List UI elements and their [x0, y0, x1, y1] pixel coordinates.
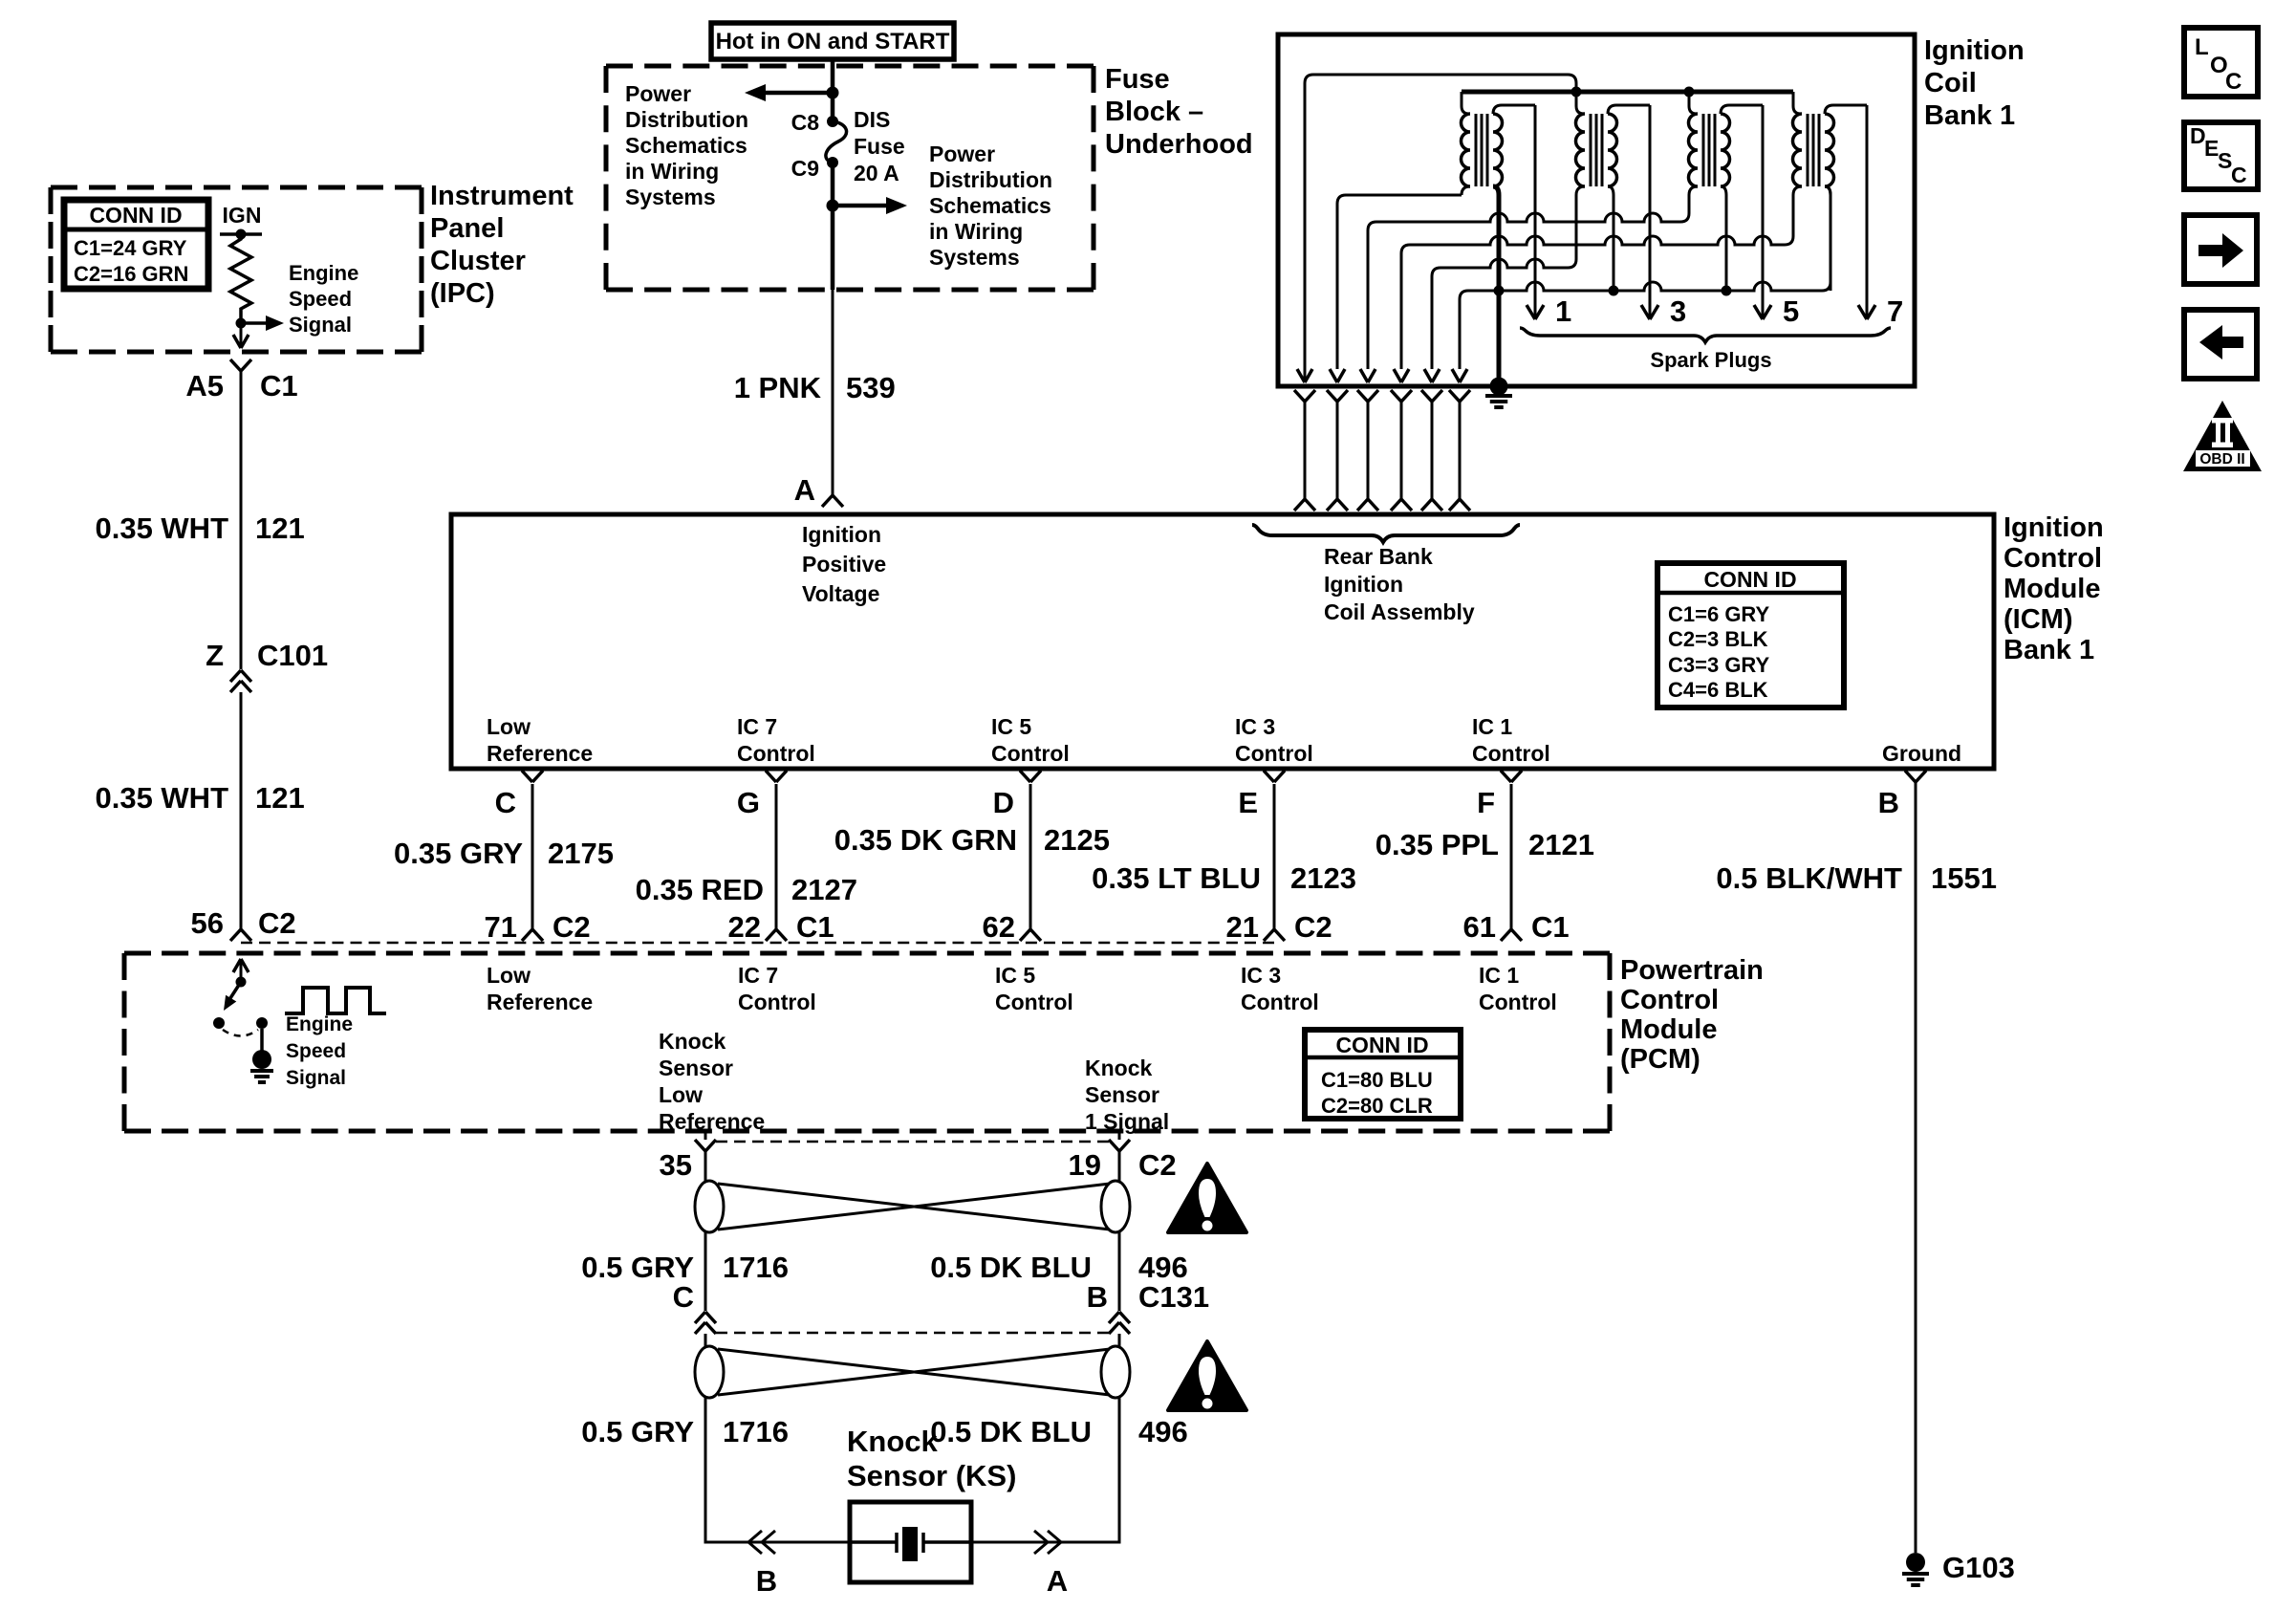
- svg-text:CONN ID: CONN ID: [89, 203, 182, 228]
- PCM pin 19 C2 connector: [1069, 1131, 1177, 1182]
- wire label 0.5 DK BLU 496 upper: [930, 1251, 1188, 1284]
- svg-text:C: C: [495, 786, 516, 819]
- svg-text:(ICM): (ICM): [2004, 604, 2072, 635]
- svg-text:Ignition: Ignition: [1924, 35, 2025, 66]
- svg-text:A5: A5: [185, 369, 224, 403]
- svg-text:Powertrain: Powertrain: [1620, 955, 1764, 986]
- svg-text:71: 71: [485, 910, 517, 944]
- icon forward arrow box: [2184, 215, 2257, 284]
- label Rear Bank Ignition Coil Assembly: [1324, 544, 1475, 624]
- svg-text:Control: Control: [1235, 741, 1313, 766]
- ICM pin label IC 1 Control: [1472, 714, 1550, 766]
- svg-text:5: 5: [1783, 294, 1799, 328]
- rear bank brace: [1252, 525, 1520, 542]
- svg-text:Speed: Speed: [289, 287, 352, 311]
- svg-text:CONN ID: CONN ID: [1703, 567, 1796, 592]
- svg-text:Voltage: Voltage: [802, 581, 879, 606]
- label Engine Speed Signal (PCM): [286, 1013, 353, 1089]
- junction dot secondary T1 ground: [1494, 286, 1505, 296]
- svg-text:1 Signal: 1 Signal: [1085, 1109, 1169, 1134]
- twisted pair upper: [695, 1181, 1130, 1232]
- svg-text:0.35 GRY: 0.35 GRY: [394, 837, 523, 870]
- junction dot rail T2: [1571, 87, 1582, 98]
- svg-text:Module: Module: [1620, 1014, 1718, 1045]
- svg-text:Reference: Reference: [487, 741, 593, 766]
- svg-text:IC 1: IC 1: [1479, 963, 1519, 988]
- wire: knock low reference upper: [704, 1151, 707, 1183]
- wire: L5 feed to T2 primary: [1424, 259, 1568, 382]
- svg-text:Low: Low: [487, 963, 531, 988]
- junction dot fuse output: [827, 200, 839, 212]
- svg-text:0.35 DK GRN: 0.35 DK GRN: [834, 823, 1017, 857]
- svg-text:IC 3: IC 3: [1241, 963, 1281, 988]
- svg-text:Systems: Systems: [929, 245, 1020, 270]
- arrow to power distribution left: [745, 84, 833, 101]
- svg-text:Cluster: Cluster: [430, 246, 526, 276]
- PCM pin 35 connector: [660, 1131, 716, 1182]
- svg-text:Block –: Block –: [1105, 97, 1203, 127]
- ground dot coil box: [1490, 378, 1508, 396]
- svg-text:0.5 GRY: 0.5 GRY: [581, 1251, 694, 1284]
- wire: IPC output with arrow: [233, 323, 249, 348]
- label IGN: [223, 203, 262, 228]
- svg-text:2175: 2175: [548, 837, 614, 870]
- wire: L3 feed to T3 primary: [1360, 213, 1680, 382]
- svg-text:IC 7: IC 7: [738, 963, 778, 988]
- svg-text:Control: Control: [738, 990, 816, 1014]
- wire: knock sensor left lead: [705, 1398, 850, 1542]
- svg-text:20 A: 20 A: [854, 161, 899, 185]
- ignition coil bank 1 box: [1278, 34, 1915, 386]
- svg-text:Knock: Knock: [847, 1425, 939, 1458]
- svg-text:35: 35: [660, 1148, 692, 1182]
- PCM pin label IC 7 Control: [738, 963, 816, 1014]
- wire label 0.5 DK BLU 496 lower: [930, 1415, 1188, 1448]
- label Knock Sensor Low Reference: [659, 1029, 765, 1134]
- svg-text:2125: 2125: [1044, 823, 1110, 857]
- svg-text:2123: 2123: [1290, 861, 1356, 895]
- IPC pin A5 connector: [230, 359, 251, 669]
- svg-text:Speed: Speed: [286, 1040, 346, 1062]
- ICM pin E connector and wire: [1238, 771, 1285, 941]
- svg-text:0.5 GRY: 0.5 GRY: [581, 1415, 694, 1448]
- powertrain control module dashed box: [124, 953, 1610, 1131]
- junction dot fuse feed: [827, 87, 839, 99]
- icon back arrow box: [2184, 310, 2257, 379]
- svg-text:Distribution: Distribution: [625, 107, 748, 132]
- wire label 0.5 BLK/WHT 1551: [1716, 861, 1997, 895]
- svg-text:G103: G103: [1942, 1551, 2015, 1584]
- svg-text:62: 62: [983, 910, 1015, 944]
- wire label 1 PNK 539: [734, 371, 896, 404]
- svg-text:B: B: [1878, 786, 1899, 819]
- svg-text:C9: C9: [791, 156, 819, 181]
- ignition control module box: [451, 514, 1994, 769]
- svg-text:C8: C8: [791, 110, 820, 135]
- svg-text:Bank 1: Bank 1: [1924, 100, 2015, 131]
- svg-text:1: 1: [1555, 294, 1571, 328]
- svg-text:Ignition: Ignition: [802, 522, 881, 547]
- wire: spark plug 3 line: [1641, 105, 1686, 328]
- junction dot secondary T3: [1722, 286, 1732, 296]
- svg-text:C101: C101: [257, 639, 328, 672]
- PCM pin label IC 5 Control: [995, 963, 1073, 1014]
- svg-text:Fuse: Fuse: [854, 134, 905, 159]
- svg-text:C2: C2: [1294, 910, 1332, 944]
- svg-text:IC 5: IC 5: [995, 963, 1035, 988]
- terminal dot C9: [827, 157, 838, 168]
- switch motion dashed arc: [223, 1030, 258, 1036]
- ground dot engine speed signal: [252, 1050, 271, 1069]
- wire: fuse output vertical: [831, 163, 835, 495]
- wire: B+ rail: [1462, 90, 1793, 95]
- resistor engine speed signal: [230, 234, 251, 323]
- svg-text:L: L: [2195, 34, 2209, 60]
- svg-text:121: 121: [255, 512, 305, 545]
- svg-text:Ground: Ground: [1882, 741, 1961, 766]
- wire: knock signal below C131: [1118, 1334, 1121, 1348]
- svg-text:C: C: [673, 1280, 694, 1314]
- svg-text:56: 56: [191, 906, 224, 940]
- PCM pin label IC 1 Control: [1479, 963, 1557, 1014]
- connector dashed line at PCM top: [241, 942, 1274, 945]
- svg-text:(PCM): (PCM): [1620, 1044, 1700, 1075]
- svg-text:C2=3 BLK: C2=3 BLK: [1668, 627, 1768, 651]
- junction dot secondary T2: [1609, 286, 1619, 296]
- label Instrument Panel Cluster (IPC): [430, 181, 574, 309]
- svg-text:Instrument: Instrument: [430, 181, 574, 211]
- wire: knock low ref below C131: [704, 1334, 707, 1348]
- ignition coil transformer T2: [1568, 92, 1650, 291]
- svg-text:C2: C2: [258, 906, 296, 940]
- connector C131 left pin C: [673, 1280, 716, 1334]
- label A5 C1: [185, 369, 297, 403]
- ignition coil transformer T3: [1680, 92, 1763, 291]
- svg-text:Underhood: Underhood: [1105, 129, 1253, 160]
- svg-text:Control: Control: [1620, 985, 1719, 1015]
- svg-text:21: 21: [1226, 910, 1259, 944]
- arrow into PCM pin 56: [233, 959, 249, 982]
- svg-text:C2: C2: [552, 910, 591, 944]
- coil connector pin at x=1527: [1449, 390, 1470, 511]
- label Ignition Control Module (ICM) Bank 1: [2004, 512, 2104, 665]
- icon OBD II triangle: [2183, 401, 2262, 471]
- switch arm engine speed signal: [224, 982, 241, 1011]
- coil connector pin at x=1399: [1327, 390, 1348, 511]
- svg-text:Bank 1: Bank 1: [2004, 635, 2094, 665]
- wire label 0.35 LT BLU 2123: [1092, 861, 1356, 895]
- svg-text:C: C: [2231, 163, 2247, 187]
- svg-text:B: B: [756, 1564, 777, 1598]
- svg-text:19: 19: [1069, 1148, 1101, 1182]
- svg-text:Signal: Signal: [289, 313, 352, 337]
- svg-text:2121: 2121: [1528, 828, 1594, 861]
- svg-text:7: 7: [1887, 294, 1903, 328]
- wire: knock low ref to C131: [704, 1232, 707, 1311]
- coil connector pin at x=1365: [1294, 390, 1315, 511]
- svg-text:Power: Power: [929, 142, 995, 166]
- terminal dot C8: [827, 116, 838, 127]
- square wave symbol: [285, 988, 386, 1013]
- svg-text:C2=80 CLR: C2=80 CLR: [1321, 1094, 1433, 1118]
- svg-text:Ignition: Ignition: [2004, 512, 2104, 543]
- KS pin A arrows: [1034, 1531, 1068, 1598]
- svg-text:Distribution: Distribution: [929, 167, 1052, 192]
- svg-text:Signal: Signal: [286, 1067, 346, 1089]
- svg-text:C: C: [2225, 69, 2242, 95]
- svg-text:C131: C131: [1138, 1280, 1209, 1314]
- wire: L6 secondary return line: [1452, 186, 1830, 382]
- svg-text:0.35 WHT: 0.35 WHT: [95, 781, 228, 815]
- wire label 0.35 DK GRN 2125: [834, 823, 1110, 857]
- svg-text:D: D: [993, 786, 1014, 819]
- wire label 0.35 WHT 121 lower: [95, 781, 304, 815]
- svg-text:22: 22: [728, 910, 761, 944]
- wire: knock signal upper: [1118, 1151, 1121, 1183]
- wire: L4 feed to T4 primary: [1394, 236, 1785, 382]
- svg-text:(IPC): (IPC): [430, 278, 495, 309]
- PCM pin 62: [983, 910, 1015, 944]
- svg-text:E: E: [1238, 786, 1258, 819]
- svg-text:B: B: [1087, 1280, 1108, 1314]
- switch contact left dot: [213, 1017, 225, 1029]
- svg-text:CONN ID: CONN ID: [1335, 1033, 1428, 1057]
- svg-text:0.35 WHT: 0.35 WHT: [95, 512, 228, 545]
- svg-text:1716: 1716: [723, 1415, 789, 1448]
- icon DESC box: [2184, 122, 2258, 189]
- svg-text:Rear Bank: Rear Bank: [1324, 544, 1433, 569]
- svg-text:1716: 1716: [723, 1251, 789, 1284]
- wire: B+ feed from coil A line: [1297, 75, 1576, 382]
- svg-text:in Wiring: in Wiring: [625, 159, 719, 184]
- svg-text:C1: C1: [796, 910, 834, 944]
- ignition coil transformer T1: [1462, 92, 1535, 386]
- svg-text:Fuse: Fuse: [1105, 64, 1170, 95]
- svg-text:1 PNK: 1 PNK: [734, 371, 822, 404]
- svg-text:C2: C2: [1138, 1148, 1177, 1182]
- wire: L2 feed to T1 primary: [1330, 195, 1462, 382]
- wire: knock signal to C131: [1118, 1232, 1121, 1311]
- svg-text:C3=3 GRY: C3=3 GRY: [1668, 653, 1770, 677]
- label Ignition Coil Bank 1: [1924, 35, 2025, 131]
- ground symbol G103: [1902, 1574, 1929, 1585]
- label G103: [1942, 1551, 2015, 1584]
- PCM pin 61 C1: [1463, 910, 1570, 944]
- label Spark Plugs: [1650, 348, 1771, 372]
- arrow to power distribution right: [833, 197, 907, 214]
- junction dot switch pivot: [236, 977, 247, 988]
- svg-text:0.35 RED: 0.35 RED: [636, 873, 764, 906]
- label power distribution schematics right: [929, 142, 1052, 270]
- fuse F8 DIS 20A symbol: [826, 121, 847, 163]
- coil connector pin at x=1431: [1357, 390, 1378, 511]
- svg-text:Reference: Reference: [487, 990, 593, 1014]
- svg-text:Low: Low: [487, 714, 531, 739]
- svg-text:0.5 DK BLU: 0.5 DK BLU: [930, 1251, 1092, 1284]
- label Knock Sensor 1 Signal: [1085, 1056, 1169, 1134]
- svg-text:A: A: [794, 473, 815, 507]
- svg-text:Engine: Engine: [286, 1013, 353, 1035]
- svg-text:IC 1: IC 1: [1472, 714, 1512, 739]
- PCM pin 21 C2: [1226, 910, 1332, 944]
- node IGN tick: [220, 232, 262, 236]
- pin A of ICM: [794, 473, 843, 507]
- wire: spark plug 7 line: [1858, 105, 1903, 328]
- PCM pin label Low Reference: [487, 963, 593, 1014]
- PCM pin 56 connector: [191, 906, 296, 941]
- svg-text:C1: C1: [260, 369, 298, 403]
- svg-text:Schematics: Schematics: [929, 193, 1051, 218]
- fuse block underhood dashed box: [606, 66, 1094, 290]
- coil connector pin at x=1466: [1391, 390, 1412, 511]
- svg-text:Coil Assembly: Coil Assembly: [1324, 599, 1475, 624]
- svg-text:C1: C1: [1531, 910, 1570, 944]
- knock sensor crystal element: [850, 1527, 971, 1561]
- wire: spark plug 5 line: [1754, 105, 1799, 328]
- ground symbol engine speed signal: [250, 1071, 273, 1082]
- svg-text:0.5 DK BLU: 0.5 DK BLU: [930, 1415, 1092, 1448]
- wire label 0.35 PPL 2121: [1375, 828, 1594, 861]
- svg-text:0.35 PPL: 0.35 PPL: [1375, 828, 1499, 861]
- svg-text:Positive: Positive: [802, 552, 886, 577]
- ground dot G103: [1906, 1553, 1925, 1572]
- svg-text:Z: Z: [206, 639, 224, 672]
- junction dot IGN: [236, 229, 247, 240]
- coil connector pin at x=1498: [1421, 390, 1442, 511]
- ICM pin D connector and wire: [993, 771, 1041, 941]
- ignition coil transformer T4: [1785, 92, 1867, 291]
- ICM pin F connector and wire: [1477, 771, 1522, 941]
- warning triangle upper: [1168, 1164, 1246, 1232]
- wire: switch to ground: [260, 1029, 264, 1052]
- svg-text:496: 496: [1138, 1251, 1188, 1284]
- svg-text:C1=6 GRY: C1=6 GRY: [1668, 602, 1770, 626]
- connector C131 right pin B: [1087, 1280, 1210, 1334]
- wire: ignition feed vertical into fuse: [831, 59, 835, 121]
- svg-text:Control: Control: [991, 741, 1070, 766]
- svg-text:Sensor: Sensor: [1085, 1082, 1159, 1107]
- svg-text:496: 496: [1138, 1415, 1188, 1448]
- PCM pin 71 C2: [485, 910, 591, 944]
- ICM pin label IC 5 Control: [991, 714, 1070, 766]
- svg-text:Systems: Systems: [625, 185, 716, 209]
- svg-text:3: 3: [1670, 294, 1686, 328]
- wire label 0.5 GRY 1716 upper: [581, 1251, 789, 1284]
- svg-text:in Wiring: in Wiring: [929, 219, 1023, 244]
- svg-text:DIS: DIS: [854, 107, 890, 132]
- label C9: [791, 156, 819, 181]
- svg-text:61: 61: [1463, 910, 1496, 944]
- svg-text:Low: Low: [659, 1082, 703, 1107]
- power feed label box: Hot in ON and START: [711, 23, 954, 59]
- wire: spark plug 1 line: [1527, 105, 1571, 328]
- svg-text:2127: 2127: [791, 873, 857, 906]
- svg-text:C4=6 BLK: C4=6 BLK: [1668, 678, 1768, 702]
- ICM pin label Ground: [1882, 741, 1961, 766]
- svg-text:Module: Module: [2004, 574, 2101, 604]
- svg-text:G: G: [737, 786, 760, 819]
- label DIS Fuse 20 A: [854, 107, 905, 185]
- arrow engine speed signal: [241, 316, 284, 331]
- svg-text:Coil: Coil: [1924, 68, 1977, 98]
- wire label 0.5 GRY 1716 lower: [581, 1415, 789, 1448]
- wire: knock sensor right lead: [971, 1398, 1119, 1542]
- label C8: [791, 110, 820, 135]
- svg-text:539: 539: [846, 371, 896, 404]
- spark plugs brace: [1520, 328, 1891, 342]
- svg-text:Control: Control: [1241, 990, 1319, 1014]
- label Ignition Positive Voltage: [802, 522, 886, 606]
- label Knock Sensor (KS): [847, 1425, 1016, 1492]
- knock sensor KS box: [850, 1502, 971, 1582]
- svg-text:Control: Control: [995, 990, 1073, 1014]
- svg-text:IC 7: IC 7: [737, 714, 777, 739]
- wire label 0.35 GRY 2175: [394, 837, 614, 870]
- ground symbol coil box: [1485, 396, 1512, 407]
- svg-text:Knock: Knock: [659, 1029, 726, 1054]
- PCM pin 22 C1: [728, 910, 834, 944]
- svg-text:IC 3: IC 3: [1235, 714, 1275, 739]
- svg-text:IGN: IGN: [223, 203, 262, 228]
- junction dot resistor output: [236, 318, 247, 329]
- twisted pair lower: [695, 1346, 1130, 1398]
- ICM pin label IC 7 Control: [737, 714, 815, 766]
- svg-text:Sensor: Sensor: [659, 1056, 733, 1080]
- svg-text:1551: 1551: [1931, 861, 1997, 895]
- junction dot rail T3: [1684, 87, 1695, 98]
- svg-text:C1=24 GRY: C1=24 GRY: [74, 236, 187, 260]
- svg-text:IC 5: IC 5: [991, 714, 1031, 739]
- svg-text:Knock: Knock: [1085, 1056, 1153, 1080]
- switch contact right dot: [256, 1017, 268, 1029]
- svg-text:OBD II: OBD II: [2199, 451, 2244, 468]
- label Fuse Block - Underhood: [1105, 64, 1253, 160]
- ICM pin label Low Reference: [487, 714, 593, 766]
- wire label 0.35 RED 2127: [636, 873, 857, 906]
- ICM pin B connector and ground wire: [1878, 771, 1926, 1553]
- svg-text:Power: Power: [625, 81, 691, 106]
- svg-text:Control: Control: [2004, 543, 2102, 574]
- label Engine Speed Signal (IPC): [289, 261, 358, 337]
- svg-text:Ignition: Ignition: [1324, 572, 1403, 597]
- PCM CONN ID box: [1305, 1030, 1461, 1119]
- svg-text:C1=80 BLU: C1=80 BLU: [1321, 1068, 1433, 1092]
- KS pin B arrows: [748, 1531, 777, 1598]
- svg-text:Control: Control: [1472, 741, 1550, 766]
- svg-text:Spark Plugs: Spark Plugs: [1650, 348, 1771, 372]
- svg-text:C2=16 GRN: C2=16 GRN: [74, 262, 188, 286]
- ICM pin label IC 3 Control: [1235, 714, 1313, 766]
- svg-text:Engine: Engine: [289, 261, 358, 285]
- svg-text:0.5 BLK/WHT: 0.5 BLK/WHT: [1716, 861, 1902, 895]
- wire: 0.35 WHT to PCM: [240, 692, 243, 929]
- svg-text:F: F: [1477, 786, 1495, 819]
- IPC CONN ID box: [64, 200, 208, 289]
- svg-text:Control: Control: [1479, 990, 1557, 1014]
- ICM pin G connector and wire: [737, 771, 787, 941]
- svg-text:A: A: [1047, 1564, 1068, 1598]
- connector C101: [206, 639, 328, 692]
- svg-text:Hot in ON and START: Hot in ON and START: [716, 29, 950, 54]
- svg-text:Schematics: Schematics: [625, 133, 747, 158]
- svg-text:Sensor (KS): Sensor (KS): [847, 1459, 1016, 1492]
- svg-text:121: 121: [255, 781, 305, 815]
- svg-text:Panel: Panel: [430, 213, 504, 244]
- PCM knock pins dashed line: [716, 1141, 1109, 1143]
- ICM CONN ID box: [1657, 563, 1844, 708]
- ICM pin C connector and wire: [495, 771, 543, 941]
- C131 dashed line: [716, 1332, 1109, 1335]
